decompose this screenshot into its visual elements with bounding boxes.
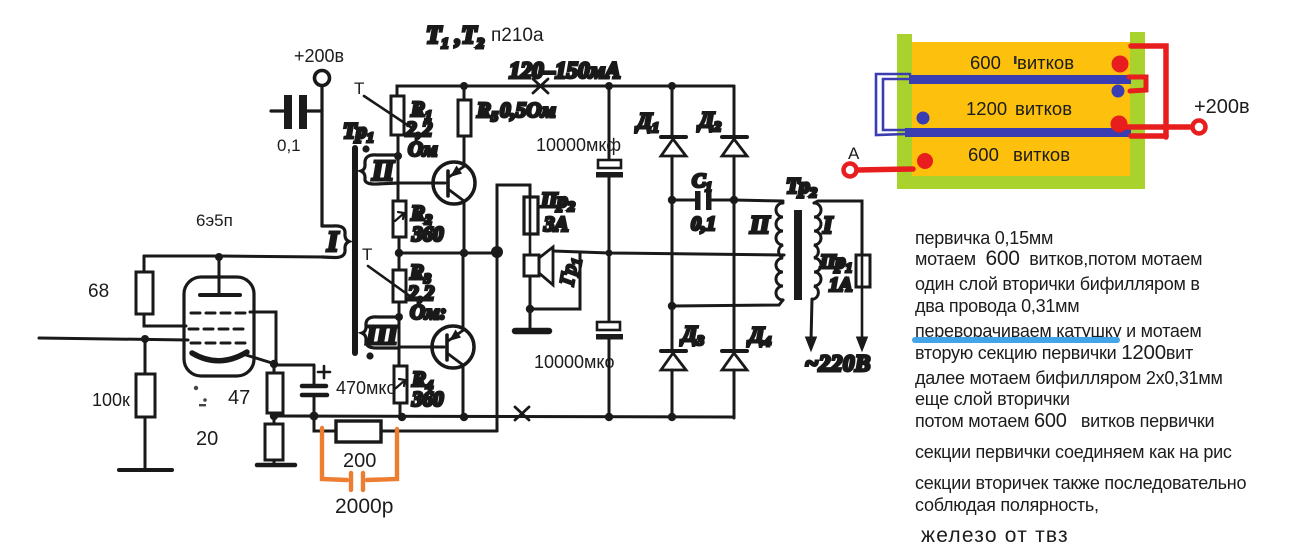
- red wire short stub lower: [1131, 133, 1166, 139]
- svg-text:600: 600: [970, 52, 1001, 73]
- svg-text:360: 360: [411, 387, 444, 411]
- wire top rail: [397, 86, 734, 96]
- transistor T1 base bar: [446, 171, 450, 196]
- svg-text:железо от твз: железо от твз: [921, 524, 1069, 547]
- arrow mark inside R2: [395, 212, 404, 221]
- capacitor C1 plates: [695, 191, 712, 210]
- svg-text:200: 200: [343, 450, 376, 472]
- wire filter rail lower: [608, 339, 611, 417]
- transformer Тр2 winding II: [776, 203, 783, 300]
- wire winding I bottom down: [811, 299, 812, 341]
- junction input / 100к: [141, 335, 149, 343]
- svg-text:47: 47: [228, 387, 250, 409]
- transistor T1 circle: [433, 162, 475, 204]
- svg-text:I: I: [822, 213, 834, 239]
- svg-text:витков: витков: [1017, 52, 1074, 73]
- tube cathode arc: [192, 352, 247, 361]
- svg-text:III: III: [365, 320, 399, 350]
- svg-text:100к: 100к: [92, 390, 130, 410]
- wire +200в down to winding I: [320, 86, 323, 226]
- capacitor 10000мкф bottom plate: [596, 172, 623, 178]
- wire T2 collector down: [462, 366, 465, 417]
- wire cap470 to resistor 200: [314, 416, 336, 431]
- wire cathode to node: [246, 355, 272, 363]
- resistor 20 bottom lead: [273, 460, 276, 464]
- measuring cross top rail: [533, 79, 548, 93]
- resistor 20 body: [265, 424, 283, 460]
- wire base T2: [399, 346, 444, 349]
- svg-text:+200в: +200в: [1194, 96, 1250, 118]
- resistor 68 body: [136, 272, 153, 314]
- svg-text:3А: 3А: [543, 212, 569, 236]
- wire speaker to ground: [529, 276, 532, 329]
- svg-text:10000мко: 10000мко: [534, 352, 615, 372]
- transformer Тр2 core: [794, 210, 802, 300]
- wire speaker node to cap midpoint: [530, 252, 580, 309]
- wire anode top rail: [144, 256, 325, 257]
- blue wire end dot row2 left: [917, 112, 930, 125]
- tube anode plate: [200, 293, 240, 297]
- instruction text block: [915, 228, 1246, 547]
- resistor 47 lead: [273, 364, 276, 373]
- transformer Тр1 core: [352, 148, 358, 353]
- fuse Пр1 through wire: [861, 255, 864, 341]
- red wire to +200в terminal: [1119, 124, 1190, 130]
- capacitor 10000мко bottom plate: [596, 334, 623, 340]
- svg-text:вторую секцию первички 1200вит: вторую секцию первички 1200вит: [915, 341, 1193, 364]
- wire bridge left column middle: [671, 156, 674, 349]
- winding II of Тр1: [361, 155, 398, 184]
- phasing dot Тр1 bottom: [366, 352, 373, 359]
- transistor T1 emitter with arrow: [449, 165, 466, 177]
- junction top rail filter cap: [605, 82, 613, 90]
- junction bottom rail R4: [398, 413, 406, 421]
- capacitor 0,1 plates: [284, 95, 307, 129]
- svg-text:Ом:: Ом:: [410, 300, 447, 324]
- diode Д2: [722, 137, 747, 156]
- resistor R4 body: [394, 366, 407, 403]
- red hook link right: [1129, 77, 1146, 91]
- ground bar under 100к: [119, 468, 172, 472]
- winding I of Тр1: [322, 226, 349, 258]
- measuring cross bottom rail: [515, 407, 529, 420]
- svg-text:Д4: Д4: [747, 322, 771, 350]
- tube grid 3 (dashed): [191, 342, 247, 345]
- wire winding I top to fuse Пр1: [814, 201, 862, 255]
- svg-text:Ом: Ом: [408, 137, 438, 161]
- wire base T1: [398, 182, 445, 185]
- wire bridge left column upper: [671, 86, 674, 135]
- junction 47-20 rail: [270, 412, 278, 420]
- svg-text:~220В: ~220В: [805, 351, 871, 376]
- secondary layer blue bar 1: [909, 75, 1131, 84]
- junction cap470 bottom: [310, 412, 319, 421]
- svg-text:II: II: [371, 156, 395, 187]
- svg-text:один слой вторички бифилляром: один слой вторички бифилляром в: [915, 274, 1200, 294]
- svg-text:Д2: Д2: [697, 107, 721, 135]
- winding III of Тр1: [362, 317, 399, 348]
- wire T2 emitter up to node: [462, 253, 465, 330]
- transistor T2 base bar: [445, 335, 449, 360]
- wire mid line to node: [399, 252, 497, 255]
- wire R4 to bottom rail: [399, 403, 402, 417]
- mains arrow left: [806, 337, 817, 351]
- svg-text:1200: 1200: [966, 98, 1007, 119]
- capacitor C1 leads: [672, 199, 695, 202]
- orange capacitor annotation bracket: [322, 428, 397, 490]
- svg-text:470мко: 470мко: [336, 378, 397, 398]
- svg-text:еще слой вторички: еще слой вторички: [915, 389, 1070, 409]
- wire grid tap right: [250, 312, 276, 363]
- capacitor 10000мко top plate: [597, 322, 620, 330]
- terminal ring А: [844, 164, 857, 177]
- resistor R1 body: [391, 96, 404, 135]
- svg-text:секции первички соединяем как: секции первички соединяем как на рис: [915, 442, 1232, 462]
- junction top rail bridge: [668, 82, 676, 90]
- resistor R2 body: [393, 201, 406, 237]
- junction R3 winding III: [395, 313, 403, 321]
- wire bridge right column middle: [733, 156, 736, 349]
- wire AC1 to Тр2 winding top: [734, 200, 783, 201]
- wire winding II to R2: [397, 157, 400, 201]
- svg-text:Пр1: Пр1: [819, 251, 852, 275]
- svg-text:Т1 ,Т2: Т1 ,Т2: [426, 22, 485, 52]
- svg-text:Т: Т: [362, 245, 372, 264]
- wire bottom rail: [274, 416, 734, 417]
- fuse Пр2 through wire: [529, 197, 532, 255]
- wire node vertical down: [496, 252, 499, 431]
- svg-text:6э5п: 6э5п: [196, 211, 233, 230]
- tube anode lead: [218, 257, 221, 293]
- tube 6э5п envelope: [184, 277, 254, 376]
- red wire end dot row3: [917, 153, 933, 169]
- wire input: [39, 338, 188, 340]
- transformer Тр2 winding I: [814, 203, 821, 299]
- wire AC2 to Тр2 winding bottom: [672, 300, 783, 306]
- svg-text:потом мотаем 600 витков перв: потом мотаем 600 витков первички: [915, 410, 1214, 432]
- wire bridge right column lower: [733, 370, 736, 418]
- capacitor 0,1 left lead: [271, 109, 283, 112]
- ground bar under speaker: [515, 328, 549, 335]
- svg-text:первичка 0,15мм: первичка 0,15мм: [915, 228, 1053, 248]
- junction output node: [491, 246, 503, 258]
- junction C1 left: [668, 196, 676, 204]
- capacitor 470мко top lead: [313, 365, 316, 384]
- svg-text:360: 360: [411, 222, 444, 246]
- junction R1 winding II: [394, 152, 402, 160]
- resistor 47 body: [267, 373, 283, 413]
- red wire primary top to vertical: [1131, 46, 1166, 137]
- capacitor 0,1 right lead: [307, 109, 322, 112]
- wire winding III to R4: [398, 317, 401, 366]
- svg-text:20: 20: [196, 428, 218, 450]
- tube grid 1 (dashed): [191, 312, 249, 315]
- terminal +200в: [315, 71, 330, 86]
- capacitor 10000мкф top plate: [598, 160, 621, 168]
- junction midpoint filter rail: [606, 250, 613, 257]
- junction anode node: [215, 253, 223, 261]
- junction AC left: [668, 302, 676, 310]
- svg-text:R50,5Ом: R50,5Ом: [476, 98, 556, 125]
- svg-text:витков: витков: [1013, 144, 1070, 165]
- ground bar under 20: [257, 463, 295, 468]
- svg-text:далее мотаем бифилляром 2х0,31: далее мотаем бифилляром 2х0,31мм: [915, 368, 1223, 388]
- svg-text:витков: витков: [1015, 98, 1072, 119]
- resistor 100к body: [136, 374, 155, 417]
- svg-text:мотаем 600 витков,потом мота: мотаем 600 витков,потом мотаем: [915, 247, 1202, 270]
- red wire А to coil: [857, 169, 913, 170]
- resistor R3 leads: [398, 253, 401, 270]
- svg-text:соблюдая полярность,: соблюдая полярность,: [915, 495, 1099, 515]
- svg-text:0,1: 0,1: [691, 213, 716, 235]
- svg-text:120–150мА: 120–150мА: [509, 58, 621, 83]
- svg-text:2000р: 2000р: [335, 495, 393, 518]
- svg-text:Д3: Д3: [680, 321, 704, 349]
- svg-text:600: 600: [968, 144, 999, 165]
- wire R2 to mid node: [398, 237, 401, 253]
- red wire end dot row2: [1111, 116, 1128, 133]
- fuse Пр1 body: [856, 255, 870, 287]
- wire midpoint line to Тр2 centre tap: [553, 251, 784, 255]
- junction bottom rail T2: [460, 413, 468, 421]
- svg-text:1А: 1А: [829, 274, 852, 296]
- capacitor 470мко polarity plus: [318, 366, 330, 378]
- wire cathode node to cap 470: [276, 364, 314, 367]
- svg-text:Пр2: Пр2: [540, 188, 575, 215]
- junction bottom rail filter cap: [605, 413, 613, 421]
- svg-text:два провода 0,31мм: два провода 0,31мм: [915, 296, 1079, 316]
- resistor 200 right lead: [381, 430, 497, 433]
- blue wire end dot right: [1112, 85, 1125, 98]
- diode Д3: [661, 351, 686, 370]
- resistor 47 bottom lead: [273, 413, 276, 424]
- blue link wire inner bracket: [883, 79, 912, 130]
- svg-text:С1: С1: [692, 170, 712, 194]
- secondary layer blue bar 2: [905, 128, 1131, 137]
- resistor R5 body: [458, 100, 471, 136]
- speaker Гр1 coil box: [524, 255, 539, 276]
- transistor T2 collector: [447, 353, 463, 365]
- coil body yellow: [912, 42, 1130, 176]
- transistor T2 emitter with arrow: [448, 329, 465, 341]
- junction cathode node: [270, 360, 278, 368]
- wire T1 collector down: [463, 202, 466, 253]
- svg-text:II: II: [749, 212, 771, 239]
- resistor 100к leads: [144, 339, 147, 374]
- junction bottom rail bridge: [668, 413, 676, 421]
- stray mark coil row1: [1014, 56, 1017, 64]
- svg-text:0,1: 0,1: [277, 136, 301, 155]
- speaker Гр1 cone: [539, 247, 553, 285]
- svg-text:68: 68: [88, 281, 109, 302]
- wire filter rail middle: [608, 177, 611, 322]
- blue underline annotation: [912, 337, 1120, 343]
- coil bobbin green base: [897, 172, 1145, 189]
- svg-text:I: I: [326, 226, 340, 258]
- junction top rail R5: [460, 82, 468, 90]
- transistor T2 circle: [432, 326, 474, 368]
- stray ink specks below tube: [194, 386, 207, 407]
- arrow mark inside R4: [396, 379, 405, 388]
- fuse Пр2 body: [524, 197, 538, 234]
- transistor T1 collector: [448, 189, 464, 201]
- junction speaker bottom: [526, 305, 534, 313]
- wire bottom-left link: [274, 415, 314, 418]
- svg-text:Тр2: Тр2: [786, 173, 817, 201]
- coil bobbin green flange right: [1130, 32, 1145, 186]
- thermal strike line R1: [364, 96, 412, 128]
- junction T1 collector mid: [460, 249, 468, 257]
- thermal strike line R3: [368, 266, 414, 299]
- tube grid 2 (dashed): [189, 328, 249, 331]
- svg-text:Т: Т: [354, 79, 364, 98]
- svg-text:Д1: Д1: [635, 108, 659, 136]
- svg-text:п210а: п210а: [491, 25, 544, 46]
- wire bridge right column upper: [733, 86, 736, 135]
- wire R1 to winding II: [397, 135, 400, 157]
- wire filter rail upper: [608, 86, 611, 160]
- svg-text:+200в: +200в: [294, 46, 344, 66]
- phasing dot Тр1 top: [362, 145, 369, 152]
- svg-text:секции вторичек также последов: секции вторичек также последовательно: [915, 473, 1246, 493]
- resistor 68 leads: [143, 256, 146, 272]
- blue link wire outer bracket: [876, 74, 910, 135]
- svg-text:А: А: [848, 144, 860, 163]
- junction C1 right: [730, 196, 738, 204]
- wire winding I bottom to anode rail: [322, 256, 325, 259]
- resistor 200 body: [336, 421, 381, 442]
- capacitor 470мко bottom lead: [313, 395, 316, 416]
- terminal ring +200в: [1193, 121, 1206, 134]
- resistor R5 leads: [463, 86, 466, 100]
- diode Д4: [722, 351, 747, 370]
- wire bridge left column lower: [671, 370, 674, 417]
- coil bobbin green flange left: [897, 34, 912, 189]
- wire node to fuse Пр2: [497, 185, 530, 247]
- resistor R3 body: [393, 270, 406, 302]
- capacitor 470мко plates: [302, 384, 326, 389]
- svg-text:Тр1: Тр1: [343, 118, 374, 146]
- diode Д1: [661, 137, 686, 156]
- red wire end dot row1: [1112, 56, 1129, 73]
- mains arrow right: [857, 337, 868, 351]
- junction R2 mid: [395, 249, 403, 257]
